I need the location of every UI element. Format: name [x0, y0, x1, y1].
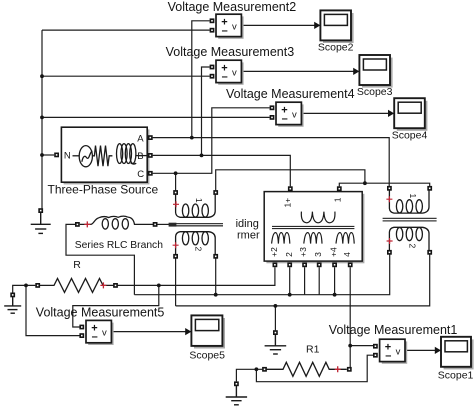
- svg-text:v: v: [292, 109, 297, 120]
- svg-text:4: 4: [342, 252, 352, 257]
- svg-text:Voltage Measurement1: Voltage Measurement1: [329, 323, 458, 337]
- node port1 bus: [363, 181, 367, 185]
- wire bus to VM3 minus: [42, 75, 210, 77]
- T1 red plus w1: [173, 201, 179, 207]
- svg-text:C: C: [137, 169, 144, 180]
- resistor R ports: [35, 283, 118, 288]
- wire R output bus1 to big block port +2: [118, 267, 275, 285]
- svg-text:Scope1: Scope1: [438, 370, 474, 382]
- wire bus to VM4 minus: [42, 116, 270, 118]
- wire big block port 2 to bus2: [289, 267, 291, 295]
- series RLC ports: [75, 222, 158, 227]
- voltage measurement VM5: [86, 320, 114, 345]
- wire node to VM1 plus: [350, 345, 373, 347]
- wire bus3 to right transformer bottom-right: [176, 254, 430, 306]
- wire source C to VM4 plus: [153, 108, 270, 174]
- wire N to AC source: [73, 155, 80, 157]
- node R1left-VM1minus: [255, 367, 259, 371]
- Scope1 input arrow: [435, 347, 441, 354]
- svg-text:rmer: rmer: [237, 230, 260, 242]
- Scope5 input arrow: [185, 328, 191, 335]
- node A-VM2: [190, 136, 194, 140]
- node B-VM3: [200, 154, 204, 158]
- svg-text:R: R: [73, 259, 81, 271]
- svg-text:Scope2: Scope2: [318, 42, 354, 54]
- resistor R1 red plus: [335, 366, 341, 372]
- T3 bottom winding 3: [304, 233, 322, 244]
- node bus1-VM5plus: [157, 284, 161, 288]
- wire left transformer bottom-left to bus3: [175, 258, 177, 306]
- svg-text:N: N: [64, 151, 71, 162]
- wire ground2 to R left: [13, 285, 36, 292]
- resistor R1 ports: [262, 367, 352, 372]
- voltage measurement VM3: [216, 60, 244, 85]
- svg-text:1: 1: [408, 194, 418, 199]
- svg-text:Scope3: Scope3: [357, 86, 393, 98]
- wire left transformer bottom-right to bus2: [215, 258, 217, 294]
- transformer T2 right: [383, 190, 437, 250]
- ground G3 port: [273, 330, 278, 335]
- T1 red plus w2: [173, 242, 179, 248]
- svg-text:–: –: [385, 350, 391, 362]
- wire bus2 to right transformer bottom-left: [134, 254, 389, 294]
- wire big block port +4 to bus2: [334, 267, 336, 295]
- svg-text:2: 2: [194, 247, 204, 252]
- ground G2 bottom-left: [4, 297, 21, 313]
- AC source sine: [82, 151, 92, 162]
- node bus-N: [40, 153, 44, 157]
- ground G3 middle: [265, 335, 287, 354]
- T1 winding 1: [176, 195, 216, 218]
- ground G4 port: [234, 381, 239, 386]
- scope Scope3: [359, 55, 392, 88]
- wire left bus vertical: [41, 30, 43, 208]
- svg-text:–: –: [222, 25, 228, 37]
- svg-text:B: B: [137, 151, 143, 162]
- Scope2 input arrow: [314, 22, 320, 29]
- wire series RLC right to transformer pad: [157, 223, 169, 225]
- wire tap to VM5 minus: [26, 285, 80, 335]
- wire R1 left to ground4: [236, 369, 262, 381]
- VM1 ports: [373, 344, 378, 358]
- wire bus to source N: [42, 154, 54, 156]
- svg-text:+4: +4: [329, 247, 339, 257]
- svg-text:Voltage Measurement3: Voltage Measurement3: [166, 45, 295, 59]
- wire source B to big block port 1+: [153, 155, 291, 186]
- AC source circle: [79, 146, 92, 167]
- VM3 ports: [210, 65, 215, 79]
- T2 red plus w1: [386, 196, 392, 202]
- wire big block port +3 to bus2: [304, 267, 306, 295]
- wire big block port 3 to bus2: [318, 267, 320, 295]
- wire big block port 1 to right transformer top-right: [339, 183, 429, 186]
- svg-text:A: A: [137, 134, 144, 145]
- resistor R red plus: [100, 282, 106, 288]
- svg-text:–: –: [92, 331, 98, 343]
- svg-text:Voltage Measurement4: Voltage Measurement4: [226, 87, 355, 101]
- node ports34-bus2: [333, 293, 337, 297]
- resistor R: [40, 278, 114, 292]
- svg-text:Three-Phase Source: Three-Phase Source: [48, 183, 159, 197]
- svg-text:2: 2: [284, 252, 294, 257]
- ground G1 port: [38, 208, 43, 213]
- T2 winding 2: [389, 227, 429, 250]
- svg-text:Scope4: Scope4: [392, 129, 428, 141]
- wire VM4 output to Scope4: [301, 112, 389, 114]
- svg-text:1: 1: [194, 198, 204, 203]
- T3 bottom winding 4: [336, 233, 354, 244]
- scope Scope2: [320, 10, 353, 43]
- wire B tap to VM3 plus: [202, 67, 210, 155]
- svg-text:Series RLC Branch: Series RLC Branch: [75, 240, 163, 251]
- scope Scope5: [191, 315, 225, 348]
- wire bus3 to middle ground: [274, 306, 276, 331]
- multi-winding transformer T3: [264, 192, 364, 264]
- VM2 ports: [210, 18, 215, 32]
- internal resistance zigzag: [92, 146, 112, 167]
- svg-text:v: v: [396, 346, 401, 357]
- svg-text:v: v: [102, 328, 107, 339]
- node bus-VM4minus: [40, 116, 44, 120]
- VM5 ports: [79, 325, 84, 338]
- wire bus to VM2 minus: [42, 29, 210, 31]
- internal inductance coil: [117, 144, 123, 164]
- T3 bottom winding 2: [272, 233, 290, 244]
- svg-text:v: v: [232, 67, 237, 78]
- voltage measurement VM1: [380, 339, 408, 364]
- svg-text:R1: R1: [306, 343, 320, 355]
- series RLC branch L1: [80, 216, 154, 229]
- wire source A to right transformer top-left: [153, 138, 390, 186]
- ground G4 under R1: [226, 386, 247, 405]
- voltage measurement VM4: [276, 102, 304, 127]
- T1 winding 2: [176, 232, 216, 255]
- svg-text:+3: +3: [298, 247, 308, 257]
- wire VM3 output to Scope3: [241, 70, 354, 72]
- wire left transformer top-right to node bus: [216, 170, 365, 191]
- voltage measurement VM2: [216, 14, 244, 39]
- series RLC red plus: [84, 221, 90, 227]
- svg-text:iding: iding: [236, 218, 259, 230]
- wire VM5 output to Scope5: [111, 331, 186, 333]
- node LTBR-bus2: [214, 293, 218, 297]
- VM4 ports: [270, 105, 275, 119]
- svg-text:–: –: [282, 113, 288, 125]
- T3 top winding: [301, 212, 335, 223]
- svg-text:Voltage Measurement2: Voltage Measurement2: [168, 0, 297, 14]
- T2 red plus w2: [387, 238, 393, 244]
- T3 bottom ports: [273, 262, 353, 267]
- wire big block port 4 down to VM1 plus and R1: [349, 267, 351, 367]
- scope Scope1: [441, 337, 474, 370]
- node bus-VM3minus: [40, 74, 44, 78]
- node VM1plus-R1: [348, 344, 352, 348]
- svg-text:2: 2: [408, 244, 418, 249]
- svg-text:1+: 1+: [283, 198, 293, 208]
- svg-text:–: –: [222, 71, 228, 83]
- ground G1 top-left: [31, 213, 51, 234]
- svg-text:+2: +2: [269, 247, 279, 257]
- T3 core: [272, 226, 354, 228]
- T1 core: [169, 224, 223, 226]
- Scope3 input arrow: [353, 68, 359, 75]
- scope Scope4: [394, 98, 427, 131]
- transformer T1 left: [169, 195, 223, 255]
- svg-text:1: 1: [332, 197, 342, 202]
- three-phase source ports N A B C: [54, 135, 153, 176]
- transformer T2 ports: [387, 186, 432, 255]
- T3 top ports: [288, 186, 342, 191]
- three-phase source U1: [61, 127, 149, 184]
- wire bus1 tap to VM5 plus: [73, 285, 159, 327]
- wire series RLC left to bus2: [66, 224, 134, 294]
- wire C tap to left transformer top-left port: [175, 173, 177, 190]
- resistor R1: [267, 362, 347, 376]
- wire VM1 minus route: [256, 355, 373, 382]
- T2 core: [383, 218, 437, 221]
- wire VM1 output to Scope1: [405, 349, 436, 351]
- svg-text:v: v: [232, 21, 237, 32]
- T1 left pad: [169, 223, 177, 227]
- wire A tap to VM2 plus: [192, 21, 210, 138]
- node ports23-bus2: [288, 293, 292, 297]
- svg-text:Voltage Measurement5: Voltage Measurement5: [36, 305, 165, 319]
- Scope4 input arrow: [388, 110, 394, 117]
- svg-text:Scope5: Scope5: [189, 349, 225, 361]
- node R-ground-VM5minus: [24, 284, 28, 288]
- transformer T1 ports: [173, 190, 218, 259]
- node bus3-ground3: [274, 304, 278, 308]
- node C-LT: [174, 171, 178, 175]
- ground G2 port: [10, 293, 15, 298]
- wire VM2 output to Scope2: [241, 24, 315, 26]
- svg-text:3: 3: [313, 252, 323, 257]
- T2 winding 1: [389, 190, 429, 213]
